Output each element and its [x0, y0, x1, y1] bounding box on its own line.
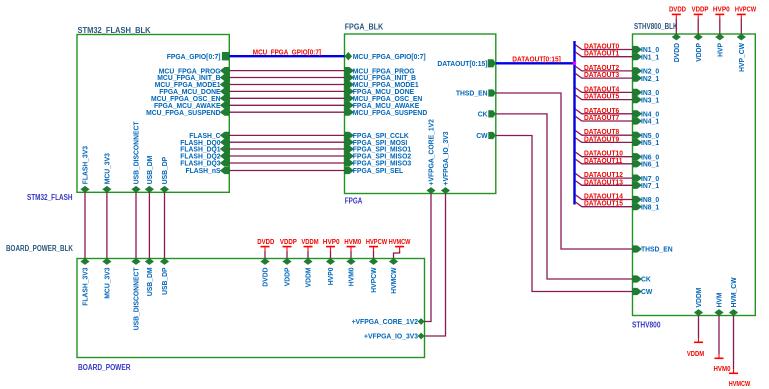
power port HVMCW [389, 239, 411, 259]
wire MCU_FPGA_MODE1 [229, 84, 344, 86]
svg-text:VDDP: VDDP [692, 7, 709, 14]
svg-text:CW: CW [476, 131, 488, 140]
bus DATAOUT[0:15] [496, 62, 575, 64]
STM32 pin MCU_FPGA_OSC_EN [151, 94, 229, 103]
STM32 pin FLASH_nS [186, 166, 230, 175]
svg-text:MCU_FPGA_SUSPEND: MCU_FPGA_SUSPEND [353, 108, 428, 117]
STHV800 pin HVM [714, 293, 723, 316]
BOARD_POWER pin HVP0 [326, 258, 335, 285]
sheet symbol STHV800_BLK [633, 34, 756, 316]
STHV800 pin IN3_0 [633, 88, 660, 97]
svg-text:STHV800: STHV800 [632, 321, 661, 330]
svg-text:FLASH_3V3: FLASH_3V3 [81, 146, 90, 184]
svg-text:DVDD: DVDD [257, 239, 274, 246]
STM32 pin MCU_FPGA_INIT_B [157, 73, 229, 82]
FPGA pin MCU_FPGA_GPIO[0:7] [345, 52, 427, 61]
STHV800 pin IN1_0 [633, 45, 660, 54]
FPGA pin DATAOUT[0:15] [437, 59, 495, 68]
svg-text:VDDP: VDDP [280, 239, 297, 246]
svg-text:VDDP: VDDP [283, 268, 292, 287]
wire DATAOUT15 [575, 202, 632, 207]
wire FLASH_C [229, 134, 344, 136]
svg-text:CW: CW [641, 287, 653, 296]
wire MCU_FPGA_INIT_B [229, 77, 344, 79]
FPGA pin FPGA_SPI_SEL [345, 166, 404, 175]
svg-text:CK: CK [478, 110, 488, 119]
svg-text:+VFPGA_IO_3V3: +VFPGA_IO_3V3 [364, 332, 418, 341]
STHV800 pin IN2_0 [633, 67, 660, 76]
svg-text:THSD_EN: THSD_EN [641, 245, 673, 254]
FPGA pin FPGA_MCU_AWAKE [345, 101, 420, 110]
svg-text:FPGA: FPGA [345, 197, 363, 206]
STHV800 pin THSD_EN [633, 245, 673, 254]
BOARD_POWER pin +VFPGA_CORE_1V2 [352, 317, 425, 326]
svg-text:HVMCW: HVMCW [389, 267, 398, 294]
svg-text:USB_DISCONNECT: USB_DISCONNECT [132, 121, 141, 184]
STHV800 pin IN3_1 [633, 95, 660, 104]
svg-text:IN2_1: IN2_1 [641, 74, 660, 83]
svg-text:IN1_1: IN1_1 [641, 52, 660, 61]
BOARD_POWER pin +VFPGA_IO_3V3 [364, 332, 425, 341]
svg-text:HVPCW: HVPCW [369, 267, 378, 293]
wire FLASH_DQ3 [229, 162, 344, 164]
svg-text:STHV800_BLK: STHV800_BLK [634, 22, 678, 31]
STM32 pin FLASH_DQ2 [180, 152, 229, 161]
wire THSD_EN [496, 93, 633, 249]
svg-text:HVMCW: HVMCW [389, 239, 411, 246]
FPGA pin MCU_FPGA_MODE1 [345, 80, 420, 89]
wire +VFPGA_CORE_1V2 [425, 194, 432, 322]
svg-text:FLASH_nS: FLASH_nS [186, 166, 221, 175]
svg-text:FPGA_GPIO[0:7]: FPGA_GPIO[0:7] [167, 52, 221, 61]
power port VDDP [280, 239, 297, 259]
BOARD_POWER pin FLASH_3V3 [80, 258, 89, 306]
svg-text:USB_DISCONNECT: USB_DISCONNECT [132, 267, 141, 330]
FPGA pin FPGA_SPI_CCLK [345, 131, 410, 140]
svg-text:IN5_1: IN5_1 [641, 138, 660, 147]
sheet symbol STM32_FLASH_BLK [77, 35, 229, 193]
wire DATAOUT13 [575, 181, 632, 186]
svg-text:+VFPGA_CORE_1V2: +VFPGA_CORE_1V2 [427, 119, 436, 185]
BOARD_POWER pin HVMCW [389, 258, 398, 294]
power port HVP0 [713, 7, 730, 35]
wire DATAOUT7 [575, 116, 632, 121]
FPGA pin MCU_FPGA_INIT_B [345, 73, 417, 82]
wire DATAOUT0 [575, 45, 632, 50]
svg-text:VDDM: VDDM [301, 239, 318, 246]
svg-text:IN4_1: IN4_1 [641, 117, 660, 126]
power port HVMCW [729, 316, 751, 389]
STM32 pin USB_DISCONNECT [131, 121, 140, 192]
STM32 pin FLASH_C [189, 131, 229, 140]
svg-text:IN8_1: IN8_1 [641, 202, 660, 211]
power port HVP0 [323, 239, 340, 259]
power port DVDD [669, 7, 686, 35]
STHV800 pin CK [633, 275, 652, 284]
FPGA pin MCU_FPGA_PROG [345, 66, 415, 75]
svg-text:STM32_FLASH_BLK: STM32_FLASH_BLK [78, 26, 151, 35]
STHV800 pin IN7_1 [633, 181, 660, 190]
STHV800 pin IN4_1 [633, 117, 660, 126]
svg-text:MCU_FPGA_SUSPEND: MCU_FPGA_SUSPEND [146, 108, 221, 117]
svg-text:HVM0: HVM0 [347, 268, 356, 287]
svg-text:DVDD: DVDD [261, 267, 270, 287]
wire CW [496, 136, 633, 292]
svg-text:HVPCW: HVPCW [735, 7, 757, 14]
STM32 pin FPGA_MCU_AWAKE [154, 101, 229, 110]
svg-text:CK: CK [641, 275, 651, 284]
wire DATAOUT6 [575, 109, 632, 114]
FPGA pin FPGA_SPI_MISO3 [345, 159, 412, 168]
svg-text:USB_DP: USB_DP [160, 157, 169, 184]
svg-text:HVM_CW: HVM_CW [729, 277, 738, 308]
svg-text:+VFPGA_CORE_1V2: +VFPGA_CORE_1V2 [352, 317, 418, 326]
STHV800 pin IN8_0 [633, 195, 660, 204]
svg-text:IN7_1: IN7_1 [641, 181, 660, 190]
power port VDDM [301, 239, 318, 259]
wire DATAOUT1 [575, 52, 632, 57]
svg-text:IN6_1: IN6_1 [641, 160, 660, 169]
wire USB_DP [164, 192, 166, 258]
svg-text:HVM: HVM [715, 293, 724, 308]
sheet symbol BOARD_POWER_BLK [77, 259, 425, 358]
STM32 pin FPGA_MCU_DONE [159, 87, 229, 96]
STM32 pin MCU_FPGA_MODE1 [155, 80, 230, 89]
svg-text:MCU_FPGA_GPIO[0:7]: MCU_FPGA_GPIO[0:7] [253, 50, 321, 57]
svg-text:HVP0: HVP0 [323, 239, 340, 246]
svg-text:HVPCW: HVPCW [366, 239, 388, 246]
wire DATAOUT14 [575, 195, 632, 200]
svg-text:DATAOUT15: DATAOUT15 [584, 201, 623, 208]
STHV800 pin HVP_CW [737, 34, 746, 72]
svg-text:DATAOUT12: DATAOUT12 [584, 172, 623, 179]
wire DATAOUT10 [575, 152, 632, 157]
FPGA pin CW [476, 131, 496, 140]
wire USB_DISCONNECT [135, 192, 137, 258]
STM32 pin FLASH_DQ0 [180, 138, 229, 147]
STM32 pin USB_DP [160, 157, 169, 193]
wire DATAOUT2 [575, 66, 632, 71]
BOARD_POWER pin HVPCW [369, 258, 378, 293]
BOARD_POWER pin USB_DM [145, 258, 154, 296]
power port VDDP [692, 7, 709, 35]
wire MCU_FPGA_SUSPEND [229, 111, 344, 113]
BOARD_POWER pin VDDP [282, 258, 291, 286]
svg-text:USB_DP: USB_DP [160, 268, 169, 295]
wire FLASH_3V3 [84, 192, 86, 258]
wire MCU_FPGA_OSC_EN [229, 97, 344, 99]
bus DATAOUT vertical [573, 41, 575, 205]
svg-text:VDDM: VDDM [304, 268, 313, 288]
FPGA pin FPGA_MCU_DONE [345, 87, 415, 96]
power port HVPCW [735, 7, 757, 35]
FPGA pin +VFPGA_CORE_1V2 [426, 119, 435, 194]
BOARD_POWER pin MCU_3V3 [102, 258, 111, 299]
STHV800 pin HVM_CW [729, 277, 738, 316]
wire CK [496, 114, 633, 279]
FPGA pin FPGA_SPI_MISO2 [345, 152, 412, 161]
svg-text:DATAOUT3: DATAOUT3 [584, 72, 619, 79]
svg-text:FPGA_BLK: FPGA_BLK [345, 23, 384, 32]
wire FLASH_DQ1 [229, 148, 344, 150]
power port HVM0 [344, 239, 361, 259]
wire DATAOUT3 [575, 73, 632, 78]
BOARD_POWER pin VDDM [303, 258, 312, 287]
STM32 pin FPGA_GPIO[0:7] [167, 52, 230, 61]
svg-text:DATAOUT[0:15]: DATAOUT[0:15] [437, 59, 487, 68]
wire DATAOUT5 [575, 95, 632, 100]
wire DATAOUT12 [575, 173, 632, 178]
svg-text:DATAOUT[0:15]: DATAOUT[0:15] [512, 57, 561, 64]
bus MCU_FPGA_GPIO[0:7] [229, 55, 344, 57]
STHV800 pin IN5_1 [633, 138, 660, 147]
wire FLASH_nS [229, 170, 344, 172]
svg-text:BOARD_POWER: BOARD_POWER [78, 363, 131, 372]
STHV800 pin HVP [715, 34, 724, 57]
svg-text:DATAOUT6: DATAOUT6 [584, 108, 619, 115]
power port DVDD [257, 239, 274, 259]
svg-text:DVDD: DVDD [672, 43, 681, 63]
svg-text:FLASH_3V3: FLASH_3V3 [81, 268, 90, 306]
sheet symbol FPGA_BLK [345, 34, 496, 194]
svg-text:HVP0: HVP0 [713, 7, 730, 14]
BOARD_POWER pin DVDD [260, 258, 269, 287]
svg-text:MCU_3V3: MCU_3V3 [103, 268, 112, 299]
svg-text:+VFPGA_IO_3V3: +VFPGA_IO_3V3 [441, 132, 450, 186]
STHV800 pin IN6_0 [633, 152, 660, 161]
svg-text:DATAOUT14: DATAOUT14 [584, 194, 623, 201]
svg-text:DATAOUT9: DATAOUT9 [584, 136, 619, 143]
STHV800 pin CW [633, 287, 653, 296]
STM32 pin FLASH_DQ1 [180, 145, 229, 154]
svg-text:IN3_1: IN3_1 [641, 95, 660, 104]
svg-text:DATAOUT10: DATAOUT10 [584, 151, 623, 158]
STHV800 pin IN8_1 [633, 202, 660, 211]
svg-text:HVP: HVP [715, 43, 724, 57]
svg-text:DATAOUT8: DATAOUT8 [584, 129, 619, 136]
FPGA pin FPGA_SPI_MOSI [345, 138, 408, 147]
wire FPGA_MCU_DONE [229, 90, 344, 92]
wire +VFPGA_IO_3V3 [425, 194, 446, 337]
power port VDDM [687, 316, 704, 359]
BOARD_POWER pin USB_DP [160, 258, 169, 295]
STHV800 pin IN6_1 [633, 160, 660, 169]
STM32 pin MCU_FPGA_PROG [159, 66, 230, 75]
wire MCU_FPGA_PROG [229, 70, 344, 72]
svg-text:HVP0: HVP0 [326, 268, 335, 286]
FPGA pin CK [478, 110, 496, 119]
STM32 pin USB_DM [145, 156, 154, 193]
wire DATAOUT8 [575, 130, 632, 135]
BOARD_POWER pin USB_DISCONNECT [131, 258, 140, 330]
svg-text:DVDD: DVDD [669, 7, 686, 14]
svg-text:DATAOUT7: DATAOUT7 [584, 115, 619, 122]
STM32 pin FLASH_3V3 [80, 146, 89, 193]
svg-text:DATAOUT13: DATAOUT13 [584, 179, 623, 186]
STHV800 pin IN4_0 [633, 110, 660, 119]
STHV800 pin IN5_0 [633, 131, 660, 140]
wire FLASH_DQ0 [229, 141, 344, 143]
svg-text:VDDM: VDDM [687, 351, 704, 358]
wire USB_DM [148, 192, 150, 258]
svg-text:HVMCW: HVMCW [729, 381, 751, 388]
power port HVM0 [714, 316, 731, 374]
svg-text:DATAOUT1: DATAOUT1 [584, 51, 619, 58]
BOARD_POWER pin HVM0 [346, 258, 355, 286]
svg-text:DATAOUT2: DATAOUT2 [584, 65, 619, 72]
STHV800 pin VDDM [694, 288, 703, 316]
wire DATAOUT11 [575, 159, 632, 164]
svg-text:MCU_FPGA_GPIO[0:7]: MCU_FPGA_GPIO[0:7] [353, 52, 426, 61]
wire DATAOUT9 [575, 138, 632, 143]
svg-text:FPGA_SPI_SEL: FPGA_SPI_SEL [353, 166, 404, 175]
svg-text:HVM0: HVM0 [714, 366, 731, 373]
svg-text:THSD_EN: THSD_EN [456, 89, 488, 98]
FPGA pin MCU_FPGA_SUSPEND [345, 108, 428, 117]
wire DATAOUT4 [575, 88, 632, 93]
svg-text:USB_DM: USB_DM [145, 156, 154, 185]
wire FLASH_DQ2 [229, 155, 344, 157]
svg-text:DATAOUT4: DATAOUT4 [584, 86, 619, 93]
svg-text:MCU_3V3: MCU_3V3 [103, 153, 112, 184]
svg-text:USB_DM: USB_DM [145, 268, 154, 297]
STM32 pin MCU_FPGA_SUSPEND [146, 108, 229, 117]
svg-text:HVM0: HVM0 [344, 239, 361, 246]
bus junction [573, 62, 576, 65]
svg-text:BOARD_POWER_BLK: BOARD_POWER_BLK [6, 244, 73, 253]
svg-text:DATAOUT0: DATAOUT0 [584, 44, 619, 51]
STM32 pin MCU_3V3 [102, 153, 111, 193]
svg-text:VDDP: VDDP [694, 43, 703, 62]
STHV800 pin VDDP [694, 34, 703, 62]
FPGA pin MCU_FPGA_OSC_EN [345, 94, 423, 103]
svg-text:DATAOUT11: DATAOUT11 [584, 158, 623, 165]
FPGA pin FPGA_SPI_MISO1 [345, 145, 412, 154]
STHV800 pin IN1_1 [633, 52, 660, 61]
FPGA pin +VFPGA_IO_3V3 [441, 132, 450, 194]
svg-text:STM32_FLASH: STM32_FLASH [27, 193, 73, 202]
svg-text:VDDM: VDDM [694, 288, 703, 308]
STHV800 pin IN2_1 [633, 74, 660, 83]
wire FPGA_MCU_AWAKE [229, 104, 344, 106]
STHV800 pin DVDD [672, 34, 681, 63]
STHV800 pin IN7_0 [633, 174, 660, 183]
STM32 pin FLASH_DQ3 [180, 159, 229, 168]
wire MCU_3V3 [106, 192, 108, 258]
FPGA pin THSD_EN [456, 89, 496, 98]
power port HVPCW [366, 239, 388, 259]
svg-text:HVP_CW: HVP_CW [737, 42, 746, 72]
svg-text:DATAOUT5: DATAOUT5 [584, 94, 619, 101]
